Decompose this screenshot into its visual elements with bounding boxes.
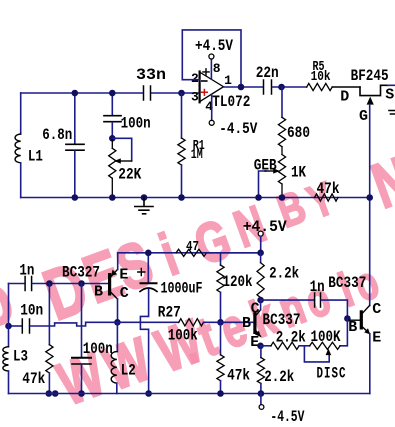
capacitor C 100n top-left xyxy=(111,93,113,116)
node dot 100n-2 top xyxy=(78,280,85,287)
node dot 47k-left bottom xyxy=(46,390,53,397)
node dot BC337-1 emitter xyxy=(257,343,264,350)
wire gate down xyxy=(369,105,371,306)
ground xyxy=(141,194,148,201)
svg-text:C: C xyxy=(251,301,260,318)
wire BC337-2 emitter down xyxy=(369,334,371,394)
svg-text:2: 2 xyxy=(191,71,199,86)
node dot 680 top xyxy=(278,84,285,91)
svg-text:L2: L2 xyxy=(121,362,136,380)
svg-text:-4.5V: -4.5V xyxy=(270,408,304,426)
svg-text:1: 1 xyxy=(224,73,232,88)
svg-text:1n: 1n xyxy=(310,278,325,296)
wire collector node to 1n cap xyxy=(261,299,314,301)
wire 1K wiper xyxy=(259,171,267,198)
wire left rail xyxy=(20,93,22,134)
svg-text:+4.5V: +4.5V xyxy=(243,218,287,236)
svg-text:E: E xyxy=(250,334,259,351)
resistor 2.2k vertical xyxy=(260,346,262,358)
node dot R1 bottom xyxy=(178,194,185,201)
node dot BC337-2 base xyxy=(344,315,351,322)
node dot collector rail xyxy=(114,319,121,326)
svg-text:2.2k: 2.2k xyxy=(276,329,306,347)
capacitor 10n xyxy=(9,325,22,327)
svg-text:3: 3 xyxy=(191,90,199,105)
node dot 22K bottom xyxy=(109,194,116,201)
capacitor 1n left xyxy=(9,283,25,285)
svg-text:100K: 100K xyxy=(311,328,341,346)
svg-text:E: E xyxy=(372,330,381,347)
wire 100K wiper loop xyxy=(304,346,329,362)
svg-text:22n: 22n xyxy=(256,64,279,82)
node dot pin3 junction xyxy=(178,90,185,97)
svg-text:33n: 33n xyxy=(136,66,166,84)
resistor 2.2k emitter horizontal xyxy=(261,345,271,347)
wire L1 bottom xyxy=(20,163,22,198)
terminal -4.5V top xyxy=(209,120,214,125)
svg-text:BF245: BF245 xyxy=(351,67,389,85)
svg-text:10n: 10n xyxy=(20,302,43,320)
svg-text:680: 680 xyxy=(287,124,310,142)
node dot collector BC337-1 xyxy=(257,297,264,304)
resistor 47k top-right xyxy=(315,194,339,201)
node dot output xyxy=(238,84,245,91)
svg-text:TL072: TL072 xyxy=(212,93,250,111)
wire top rail xyxy=(21,92,143,94)
resistor 47k left xyxy=(48,284,50,345)
svg-text:47k: 47k xyxy=(317,180,340,198)
node dot 1K bottom xyxy=(279,194,286,201)
wire 47 to +4.5V node xyxy=(207,252,261,254)
op-amp U1 TL072 xyxy=(200,72,224,102)
node dot 100n / 22K junction xyxy=(109,135,116,142)
wire top rail right of 33n to op-amp pin3 xyxy=(152,92,200,94)
svg-text:-4.5V: -4.5V xyxy=(219,120,257,138)
svg-text:BC327: BC327 xyxy=(62,264,100,282)
capacitor 33n xyxy=(144,86,151,100)
inductor L1 xyxy=(15,134,21,163)
watermark www.teknoloji letters xyxy=(49,340,113,419)
svg-text:1n: 1n xyxy=(19,262,34,280)
node dot gate rail xyxy=(366,194,373,201)
svg-text:R27: R27 xyxy=(158,303,181,321)
node dot -4.5V rail xyxy=(258,390,265,397)
transistor Q BC337 second xyxy=(347,319,359,321)
arrow 22K wiper xyxy=(114,158,121,163)
svg-text:+4.5V: +4.5V xyxy=(195,37,233,55)
wire bottom rail xyxy=(9,393,370,395)
node dot 120k bottom / base rail xyxy=(217,319,224,326)
svg-text:B: B xyxy=(94,283,103,300)
wire base rail to R27 xyxy=(117,321,178,323)
transistor Q BF245 xyxy=(360,85,388,95)
capacitor C 6.8n xyxy=(74,93,76,144)
svg-text:D: D xyxy=(340,88,349,105)
svg-text:100n: 100n xyxy=(83,340,113,358)
resistor 680 xyxy=(281,87,283,117)
svg-text:120k: 120k xyxy=(223,273,253,291)
svg-text:C: C xyxy=(120,285,129,302)
node dot 6.8n top xyxy=(72,90,79,97)
node dot +4.5V rail xyxy=(257,250,264,257)
capacitor 1n right xyxy=(315,293,321,307)
node dot 1000uF bottom rail xyxy=(145,390,152,397)
terminal +4.5V top xyxy=(209,54,214,59)
svg-text:L3: L3 xyxy=(13,348,28,366)
svg-text:100k: 100k xyxy=(168,327,198,345)
arrow 100K wiper xyxy=(326,349,332,356)
wire left rail down xyxy=(8,284,10,347)
transistor Q BC337 first xyxy=(253,312,256,334)
svg-text:G: G xyxy=(359,108,368,125)
svg-text:1K: 1K xyxy=(291,164,306,182)
svg-text:47: 47 xyxy=(186,239,199,255)
wire 1000uF bottom with jog xyxy=(140,290,148,394)
terminal -4.5V bottom xyxy=(260,394,262,405)
svg-text:BC337: BC337 xyxy=(328,274,366,292)
terminal +4.5V bottom xyxy=(258,231,263,236)
svg-text:100n: 100n xyxy=(121,115,151,133)
potentiometer 1K xyxy=(278,155,285,185)
node dot 47k-mid bottom xyxy=(217,390,224,397)
svg-text:2.2k: 2.2k xyxy=(269,265,299,283)
svg-text:B: B xyxy=(348,319,357,336)
watermark DESiGN BY N letters xyxy=(0,260,23,344)
svg-text:B: B xyxy=(242,315,251,332)
svg-text:N: N xyxy=(363,143,395,222)
capacitor 22n xyxy=(264,80,272,94)
resistor 47k middle xyxy=(220,322,222,355)
wire BC337-1 collector xyxy=(260,300,262,310)
inductor L3 xyxy=(3,347,9,371)
wire base node down to 100K right end xyxy=(340,319,347,346)
node dot 100n top xyxy=(109,90,116,97)
capacitor 1000uF xyxy=(147,253,149,283)
transistor Q BC327 xyxy=(108,273,111,296)
node dot wiper rail xyxy=(255,194,262,201)
wire bottom rail of top section xyxy=(21,197,370,199)
wire BC327 collector down xyxy=(117,299,119,322)
arrow 1K wiper xyxy=(273,168,280,173)
node dot 47k-left top xyxy=(46,280,53,287)
node dot 10n left rail xyxy=(5,323,12,330)
wire pin8 supply xyxy=(210,59,212,79)
wire emitter rail bottom section xyxy=(118,252,261,254)
resistor 2.2k first xyxy=(260,253,262,263)
inductor L2 xyxy=(116,322,118,351)
resistor 47 xyxy=(176,249,206,256)
wire BC327 emitter up xyxy=(117,253,119,269)
node dot 100n bottom xyxy=(78,390,85,397)
resistor R1 1M xyxy=(181,93,183,138)
svg-text:BC337: BC337 xyxy=(263,311,301,329)
capacitor 100n bottom xyxy=(81,284,83,358)
wire pin4 supply xyxy=(211,95,213,120)
edge tick right xyxy=(389,111,395,115)
node dot 6.8n bottom xyxy=(72,194,79,201)
potentiometer 100K xyxy=(310,342,340,349)
svg-text:10k: 10k xyxy=(311,69,331,85)
svg-text:2.2k: 2.2k xyxy=(264,368,294,386)
wire feedback loop xyxy=(182,30,241,87)
svg-text:DISC: DISC xyxy=(317,365,347,383)
svg-text:8: 8 xyxy=(213,61,221,76)
svg-text:1000uF: 1000uF xyxy=(161,280,203,298)
wire 22K wiper loop xyxy=(112,138,131,161)
svg-text:47k: 47k xyxy=(22,370,45,388)
node dot extra bottom rail xyxy=(52,390,59,397)
potentiometer 22K zigzag xyxy=(109,148,116,178)
svg-text:L1: L1 xyxy=(28,148,43,166)
svg-text:E: E xyxy=(119,267,128,284)
wire op-amp output xyxy=(224,86,263,88)
svg-text:6.8n: 6.8n xyxy=(42,126,72,144)
svg-text:C: C xyxy=(372,301,381,318)
wire 10n to base rail with jogs xyxy=(30,322,117,326)
resistor R27 100k xyxy=(179,319,204,326)
svg-text:S: S xyxy=(385,86,394,103)
svg-text:47k: 47k xyxy=(227,367,250,385)
svg-text:1M: 1M xyxy=(191,147,203,163)
resistor R5 10k xyxy=(307,83,333,90)
svg-text:22K: 22K xyxy=(118,166,141,184)
resistor 120k xyxy=(220,253,222,265)
node dot 1000uF top xyxy=(145,250,152,257)
